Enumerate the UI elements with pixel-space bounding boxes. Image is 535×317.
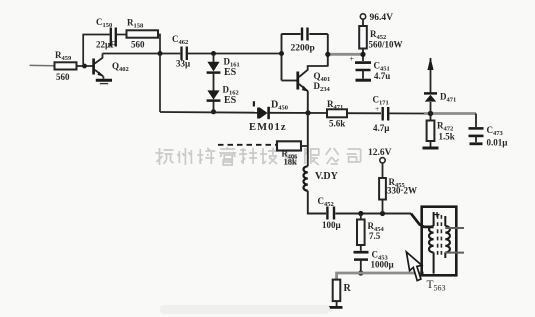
- svg-text:33µ: 33µ: [176, 59, 191, 69]
- ground Q402 emitter: [96, 80, 112, 83]
- wire collector rail y53.5: [103, 53, 181, 55]
- svg-text:4.7u: 4.7u: [374, 71, 390, 81]
- junction R454 top: [358, 211, 363, 216]
- terminal 96.4V: [360, 13, 393, 23]
- junction loop left: [279, 51, 284, 56]
- svg-text:ES: ES: [224, 95, 237, 106]
- cursor arrow: [406, 252, 421, 281]
- svg-text:R459: R459: [55, 50, 72, 62]
- node base of Q402: [82, 64, 87, 69]
- svg-text:1000µ: 1000µ: [371, 260, 395, 270]
- wire elbow to transformer: [411, 214, 434, 227]
- svg-text:2200p: 2200p: [291, 44, 315, 54]
- wire feedback riser: [83, 35, 110, 67]
- ground C451: [356, 79, 372, 82]
- wire diode column bottom stub: [213, 102, 215, 112]
- wire rail y53.5 right part: [188, 53, 282, 55]
- junction D471: [428, 111, 433, 116]
- scan artifact D450 tick: [253, 101, 255, 106]
- wire left column: [159, 54, 161, 113]
- wire emitter drop: [307, 91, 309, 166]
- svg-text:560: 560: [56, 72, 70, 82]
- svg-text:T563: T563: [427, 279, 446, 293]
- svg-text:+: +: [375, 104, 379, 113]
- capacitor C150 22uF: [96, 17, 116, 50]
- capacitor C171 4.7u: [373, 95, 391, 134]
- svg-text:330·2W: 330·2W: [387, 186, 417, 196]
- svg-text:1.5k: 1.5k: [439, 132, 455, 142]
- wire rail y213.5: [335, 213, 411, 215]
- svg-text:R: R: [344, 283, 352, 294]
- svg-text:C150: C150: [96, 17, 112, 29]
- svg-text:V.DY: V.DY: [315, 171, 339, 182]
- svg-text:+: +: [350, 55, 355, 64]
- diode D162 ES: [207, 74, 239, 106]
- svg-text:ES: ES: [224, 67, 237, 78]
- resistor R455 330 2W: [379, 163, 417, 214]
- scan artifact bottom smudge: [160, 305, 330, 314]
- junction bottom rail: [358, 270, 363, 275]
- terminal 12.6V: [368, 148, 392, 163]
- svg-text:4.7µ: 4.7µ: [373, 123, 390, 133]
- wire corner down to rail: [158, 35, 160, 54]
- wire rail gray to right: [390, 112, 425, 114]
- junction diode column top: [211, 51, 216, 56]
- wire rail: [270, 112, 328, 114]
- svg-text:18k: 18k: [284, 157, 298, 167]
- ground R: [328, 306, 343, 309]
- capacitor C401 2200p feedback loop: [282, 28, 328, 81]
- transformer T563: [422, 207, 464, 293]
- svg-text:R158: R158: [127, 18, 144, 30]
- resistor R406 18k with dashed feed: [218, 141, 308, 166]
- wire input: [30, 64, 56, 66]
- junction loop right: [325, 52, 330, 57]
- svg-text:C452: C452: [318, 196, 334, 208]
- junction: [158, 51, 163, 56]
- junction emitter rail: [305, 110, 310, 115]
- resistor R158 560: [127, 18, 159, 50]
- wire bottom rail y112: [160, 111, 258, 114]
- resistor R471 5.6k: [327, 99, 347, 129]
- wire to C452: [308, 191, 326, 214]
- capacitor C451 4.7u: [355, 61, 390, 82]
- transistor Q402: [94, 54, 129, 79]
- diode D471: [424, 58, 456, 114]
- svg-text:Q402: Q402: [112, 61, 129, 73]
- capacitor C453 1000u: [354, 250, 395, 274]
- capacitor C462 33u: [172, 34, 191, 69]
- capacitor C452 100u: [318, 196, 342, 230]
- svg-text:C462: C462: [172, 34, 188, 46]
- svg-text:100µ: 100µ: [322, 220, 342, 230]
- diode D161 ES: [207, 54, 240, 79]
- svg-text:560/10W: 560/10W: [369, 40, 403, 50]
- wire gray rail collector Q401: [328, 53, 361, 56]
- svg-text:22µF: 22µF: [96, 40, 116, 50]
- resistor R454 7.5: [357, 214, 385, 251]
- wire bottom rail gray: [337, 273, 424, 280]
- svg-text:7.5: 7.5: [369, 231, 381, 241]
- resistor R452 560/10W: [359, 19, 402, 61]
- watermark: [156, 147, 361, 165]
- svg-text:0.01µ: 0.01µ: [487, 138, 509, 148]
- ground R472: [423, 147, 439, 150]
- svg-text:D471: D471: [440, 92, 456, 104]
- resistor R459 560: [55, 50, 77, 82]
- wire to base node: [77, 65, 94, 67]
- svg-text:12.6V: 12.6V: [368, 148, 392, 158]
- inductor V.DY: [303, 166, 338, 190]
- junction R455 bottom: [380, 211, 385, 216]
- resistor R472 1.5k: [427, 114, 455, 147]
- svg-text:EM01z: EM01z: [249, 122, 287, 133]
- junction R452 bottom: [360, 52, 365, 57]
- svg-text:5.6k: 5.6k: [329, 119, 345, 129]
- transistor Q401 D234: [282, 66, 331, 93]
- ground C473: [470, 142, 483, 145]
- svg-text:C473: C473: [487, 125, 504, 137]
- svg-text:96.4V: 96.4V: [370, 13, 394, 23]
- svg-text:560: 560: [131, 40, 145, 50]
- resistor R: [333, 280, 352, 306]
- wire: [117, 34, 127, 36]
- diode D450 EM01z: [249, 100, 288, 134]
- capacitor C473 0.01u: [469, 114, 509, 148]
- svg-text:D450: D450: [271, 100, 288, 112]
- wire rail: [347, 112, 381, 114]
